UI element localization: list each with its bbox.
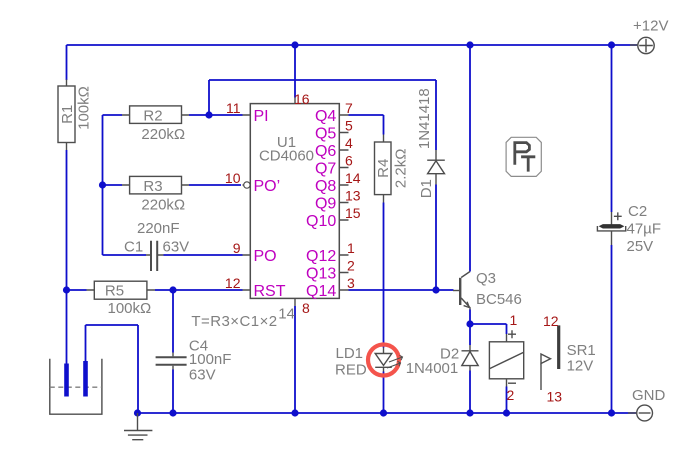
junction node C2/rail xyxy=(608,409,615,416)
sensor water level dashed xyxy=(50,386,102,388)
wire R1 bottom vertical to sensor electrode xyxy=(66,150,68,364)
svg-text:R3: R3 xyxy=(143,178,162,195)
svg-text:Q9: Q9 xyxy=(315,195,336,212)
wire ground rail xyxy=(138,412,637,414)
junction node R2/PI/D1 xyxy=(205,111,212,118)
resistor R4 xyxy=(375,135,410,203)
wire horizontal feedback to D1 xyxy=(209,79,436,81)
capacitor C2 47uF polarized xyxy=(597,203,661,255)
relay SR1 contact xyxy=(541,325,559,390)
capacitor C1 220nF xyxy=(124,220,189,271)
wire C4 top vertical xyxy=(172,290,174,353)
wire Q14 net horizontal xyxy=(349,289,454,291)
svg-text:12V: 12V xyxy=(567,358,594,375)
wire LED to ground rail xyxy=(383,372,385,414)
svg-text:PO: PO xyxy=(254,248,277,265)
svg-text:2: 2 xyxy=(347,258,355,274)
wire R1 top vertical xyxy=(66,45,68,80)
wire left branch to C1 xyxy=(103,254,147,256)
svg-text:12: 12 xyxy=(225,275,241,291)
svg-text:LD1: LD1 xyxy=(336,345,364,362)
wire electrode2 horizontal xyxy=(86,324,139,326)
U1 pin PO' inversion circle xyxy=(244,182,250,188)
wire R3 to pin PO' xyxy=(189,184,241,186)
junction node relay pin2/rail xyxy=(503,409,510,416)
wire relay pin2 to rail xyxy=(506,387,508,414)
svg-text:100kΩ: 100kΩ xyxy=(76,86,93,130)
junction node emitter/relay/D2 xyxy=(466,320,473,327)
svg-text:PO’: PO’ xyxy=(254,178,281,195)
svg-text:RST: RST xyxy=(254,283,286,300)
svg-text:1N4001: 1N4001 xyxy=(406,360,459,377)
op-amp U1 CD4060 body xyxy=(250,104,339,299)
junction node RST/C4 xyxy=(169,286,176,293)
resistor R2 xyxy=(122,106,189,143)
svg-text:5: 5 xyxy=(345,118,353,134)
svg-text:CD4060: CD4060 xyxy=(259,148,314,165)
svg-text:Q5: Q5 xyxy=(315,125,336,142)
svg-text:PI: PI xyxy=(254,108,269,125)
wire Q3 emitter to node xyxy=(469,310,471,325)
wire C4 bottom vertical xyxy=(172,370,174,414)
svg-text:C2: C2 xyxy=(628,203,647,220)
wire left branch to R2 xyxy=(103,114,123,116)
svg-text:14: 14 xyxy=(345,170,361,186)
wire C1 to pin PO xyxy=(164,254,243,256)
svg-text:100nF: 100nF xyxy=(189,351,232,368)
svg-text:1: 1 xyxy=(510,312,518,328)
LED LD1 symbol xyxy=(375,348,402,372)
wire D1 top vertical xyxy=(435,80,437,150)
capacitor C4 100nF xyxy=(156,338,232,384)
svg-text:15: 15 xyxy=(345,205,361,221)
transistor Q3 xyxy=(453,270,522,310)
svg-text:BC546: BC546 xyxy=(476,291,522,308)
svg-text:1: 1 xyxy=(347,240,355,256)
svg-text:220nF: 220nF xyxy=(137,220,180,237)
svg-text:R5: R5 xyxy=(105,282,124,299)
svg-text:6: 6 xyxy=(345,153,353,169)
svg-text:SR1: SR1 xyxy=(567,342,596,359)
svg-text:25V: 25V xyxy=(627,238,654,255)
svg-text:Q10: Q10 xyxy=(306,213,336,230)
svg-text:1N41418: 1N41418 xyxy=(416,88,433,149)
svg-text:9: 9 xyxy=(233,240,241,256)
junction node pin8/rail xyxy=(291,409,298,416)
wire relay pin1 vertical xyxy=(506,324,508,334)
sensor container xyxy=(50,359,102,414)
svg-text:11: 11 xyxy=(226,100,241,116)
sensor electrode 2 xyxy=(83,361,88,397)
wire left branch to R3 xyxy=(103,184,123,186)
svg-text:100kΩ: 100kΩ xyxy=(108,300,152,317)
wire top rail +12V xyxy=(67,44,638,46)
junction node sensor/rail xyxy=(134,409,141,416)
wire D1 bottom to Q14 net xyxy=(435,185,437,291)
GND terminal xyxy=(628,387,666,421)
wire R2 to pin PI xyxy=(189,114,243,116)
wire electrode2 up xyxy=(85,325,87,362)
wire D2 bottom to rail xyxy=(469,371,471,414)
wire Q4 to R4 horizontal xyxy=(349,114,384,116)
diode D1 xyxy=(416,88,445,198)
svg-text:Q3: Q3 xyxy=(476,270,496,287)
svg-text:GND: GND xyxy=(632,387,666,404)
resistor R1 xyxy=(58,80,93,151)
resistor R3 xyxy=(122,176,189,213)
U1 pin8 stub xyxy=(294,298,296,306)
wire D2 top xyxy=(469,324,471,345)
junction node R1/R5 xyxy=(63,286,70,293)
ground xyxy=(124,413,152,440)
svg-text:C1: C1 xyxy=(124,239,143,256)
U1 pin16 stub xyxy=(294,98,296,104)
svg-text:10: 10 xyxy=(225,170,241,186)
svg-text:D1: D1 xyxy=(418,179,435,198)
svg-text:13: 13 xyxy=(345,188,361,204)
svg-text:R2: R2 xyxy=(143,107,162,124)
svg-text:R4: R4 xyxy=(375,159,392,178)
svg-text:T=R3×C1×2: T=R3×C1×2 xyxy=(191,313,277,330)
svg-text:4: 4 xyxy=(345,135,353,151)
svg-text:Q8: Q8 xyxy=(315,178,336,195)
relay SR1 coil xyxy=(489,330,523,386)
wire R4 bottom to LED xyxy=(383,203,385,348)
svg-text:RED: RED xyxy=(335,362,367,379)
svg-text:3: 3 xyxy=(347,275,355,291)
svg-text:+12V: +12V xyxy=(633,18,668,35)
svg-text:Q12: Q12 xyxy=(306,248,336,265)
junction node D1/Q14/base xyxy=(432,286,439,293)
wire node to relay pin1 xyxy=(470,323,507,325)
U1 pin stubs right xyxy=(339,115,348,290)
svg-text:63V: 63V xyxy=(189,367,216,384)
wire C2 bottom vertical xyxy=(611,245,613,413)
U1 pin stubs left xyxy=(243,115,251,290)
PT logo xyxy=(506,137,541,176)
svg-text:Q14: Q14 xyxy=(306,283,336,300)
junction node R3/left branch xyxy=(99,181,106,188)
+12V terminal xyxy=(630,18,668,54)
wire pin8 to ground rail xyxy=(294,306,296,413)
wire pin16 vertical xyxy=(294,45,296,98)
wire left branch vertical R2-R3-C1 xyxy=(102,115,104,255)
svg-text:16: 16 xyxy=(294,91,310,107)
sensor electrode 1 xyxy=(64,364,69,397)
svg-text:2.2kΩ: 2.2kΩ xyxy=(393,149,410,189)
svg-text:220kΩ: 220kΩ xyxy=(141,126,185,143)
wire R5 to pin RST xyxy=(155,289,243,291)
svg-text:7: 7 xyxy=(345,100,353,116)
svg-text:220kΩ: 220kΩ xyxy=(141,196,185,213)
svg-text:Q7: Q7 xyxy=(315,160,336,177)
svg-text:Q6: Q6 xyxy=(315,143,336,160)
junction node C2/top rail xyxy=(608,41,615,48)
diode D2 xyxy=(406,345,479,377)
junction node C4/rail xyxy=(169,409,176,416)
svg-text:63V: 63V xyxy=(163,239,190,256)
wire Q3 collector vertical xyxy=(469,45,471,272)
junction node Q3 collector/top rail xyxy=(466,41,473,48)
LED LD1 red ring xyxy=(368,345,399,376)
wire R4 top vertical xyxy=(383,115,385,135)
svg-text:8: 8 xyxy=(302,300,310,316)
svg-text:13: 13 xyxy=(547,389,563,405)
svg-text:12: 12 xyxy=(543,313,559,329)
svg-text:47µF: 47µF xyxy=(627,221,662,238)
svg-text:Q13: Q13 xyxy=(306,265,336,282)
wire node up from R2 junction xyxy=(208,80,210,115)
wire electrode2 down to rail xyxy=(137,325,139,413)
svg-text:14: 14 xyxy=(278,306,295,323)
svg-text:2: 2 xyxy=(507,387,515,403)
wire C2 top vertical xyxy=(611,45,613,212)
junction node LED/rail xyxy=(380,409,387,416)
svg-text:R1: R1 xyxy=(59,105,76,124)
svg-text:Q4: Q4 xyxy=(315,108,336,125)
junction node D2/rail xyxy=(466,409,473,416)
resistor R5 xyxy=(87,281,156,317)
wire R5 left xyxy=(67,289,87,291)
junction node pin16/top rail xyxy=(291,41,298,48)
